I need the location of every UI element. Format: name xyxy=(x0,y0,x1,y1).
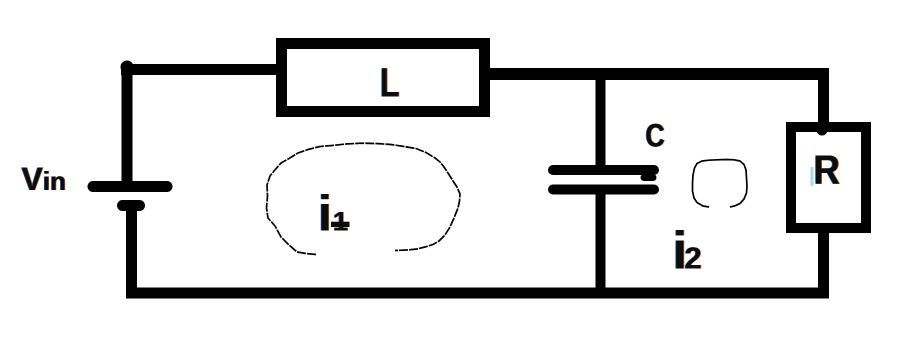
svg-text:1: 1 xyxy=(333,207,348,237)
svg-text:C: C xyxy=(646,118,665,154)
svg-text:Vin: Vin xyxy=(22,161,66,197)
svg-text:2: 2 xyxy=(685,241,702,276)
svg-text:L: L xyxy=(380,60,400,106)
svg-text:R: R xyxy=(814,147,841,193)
svg-text:i: i xyxy=(318,186,332,242)
